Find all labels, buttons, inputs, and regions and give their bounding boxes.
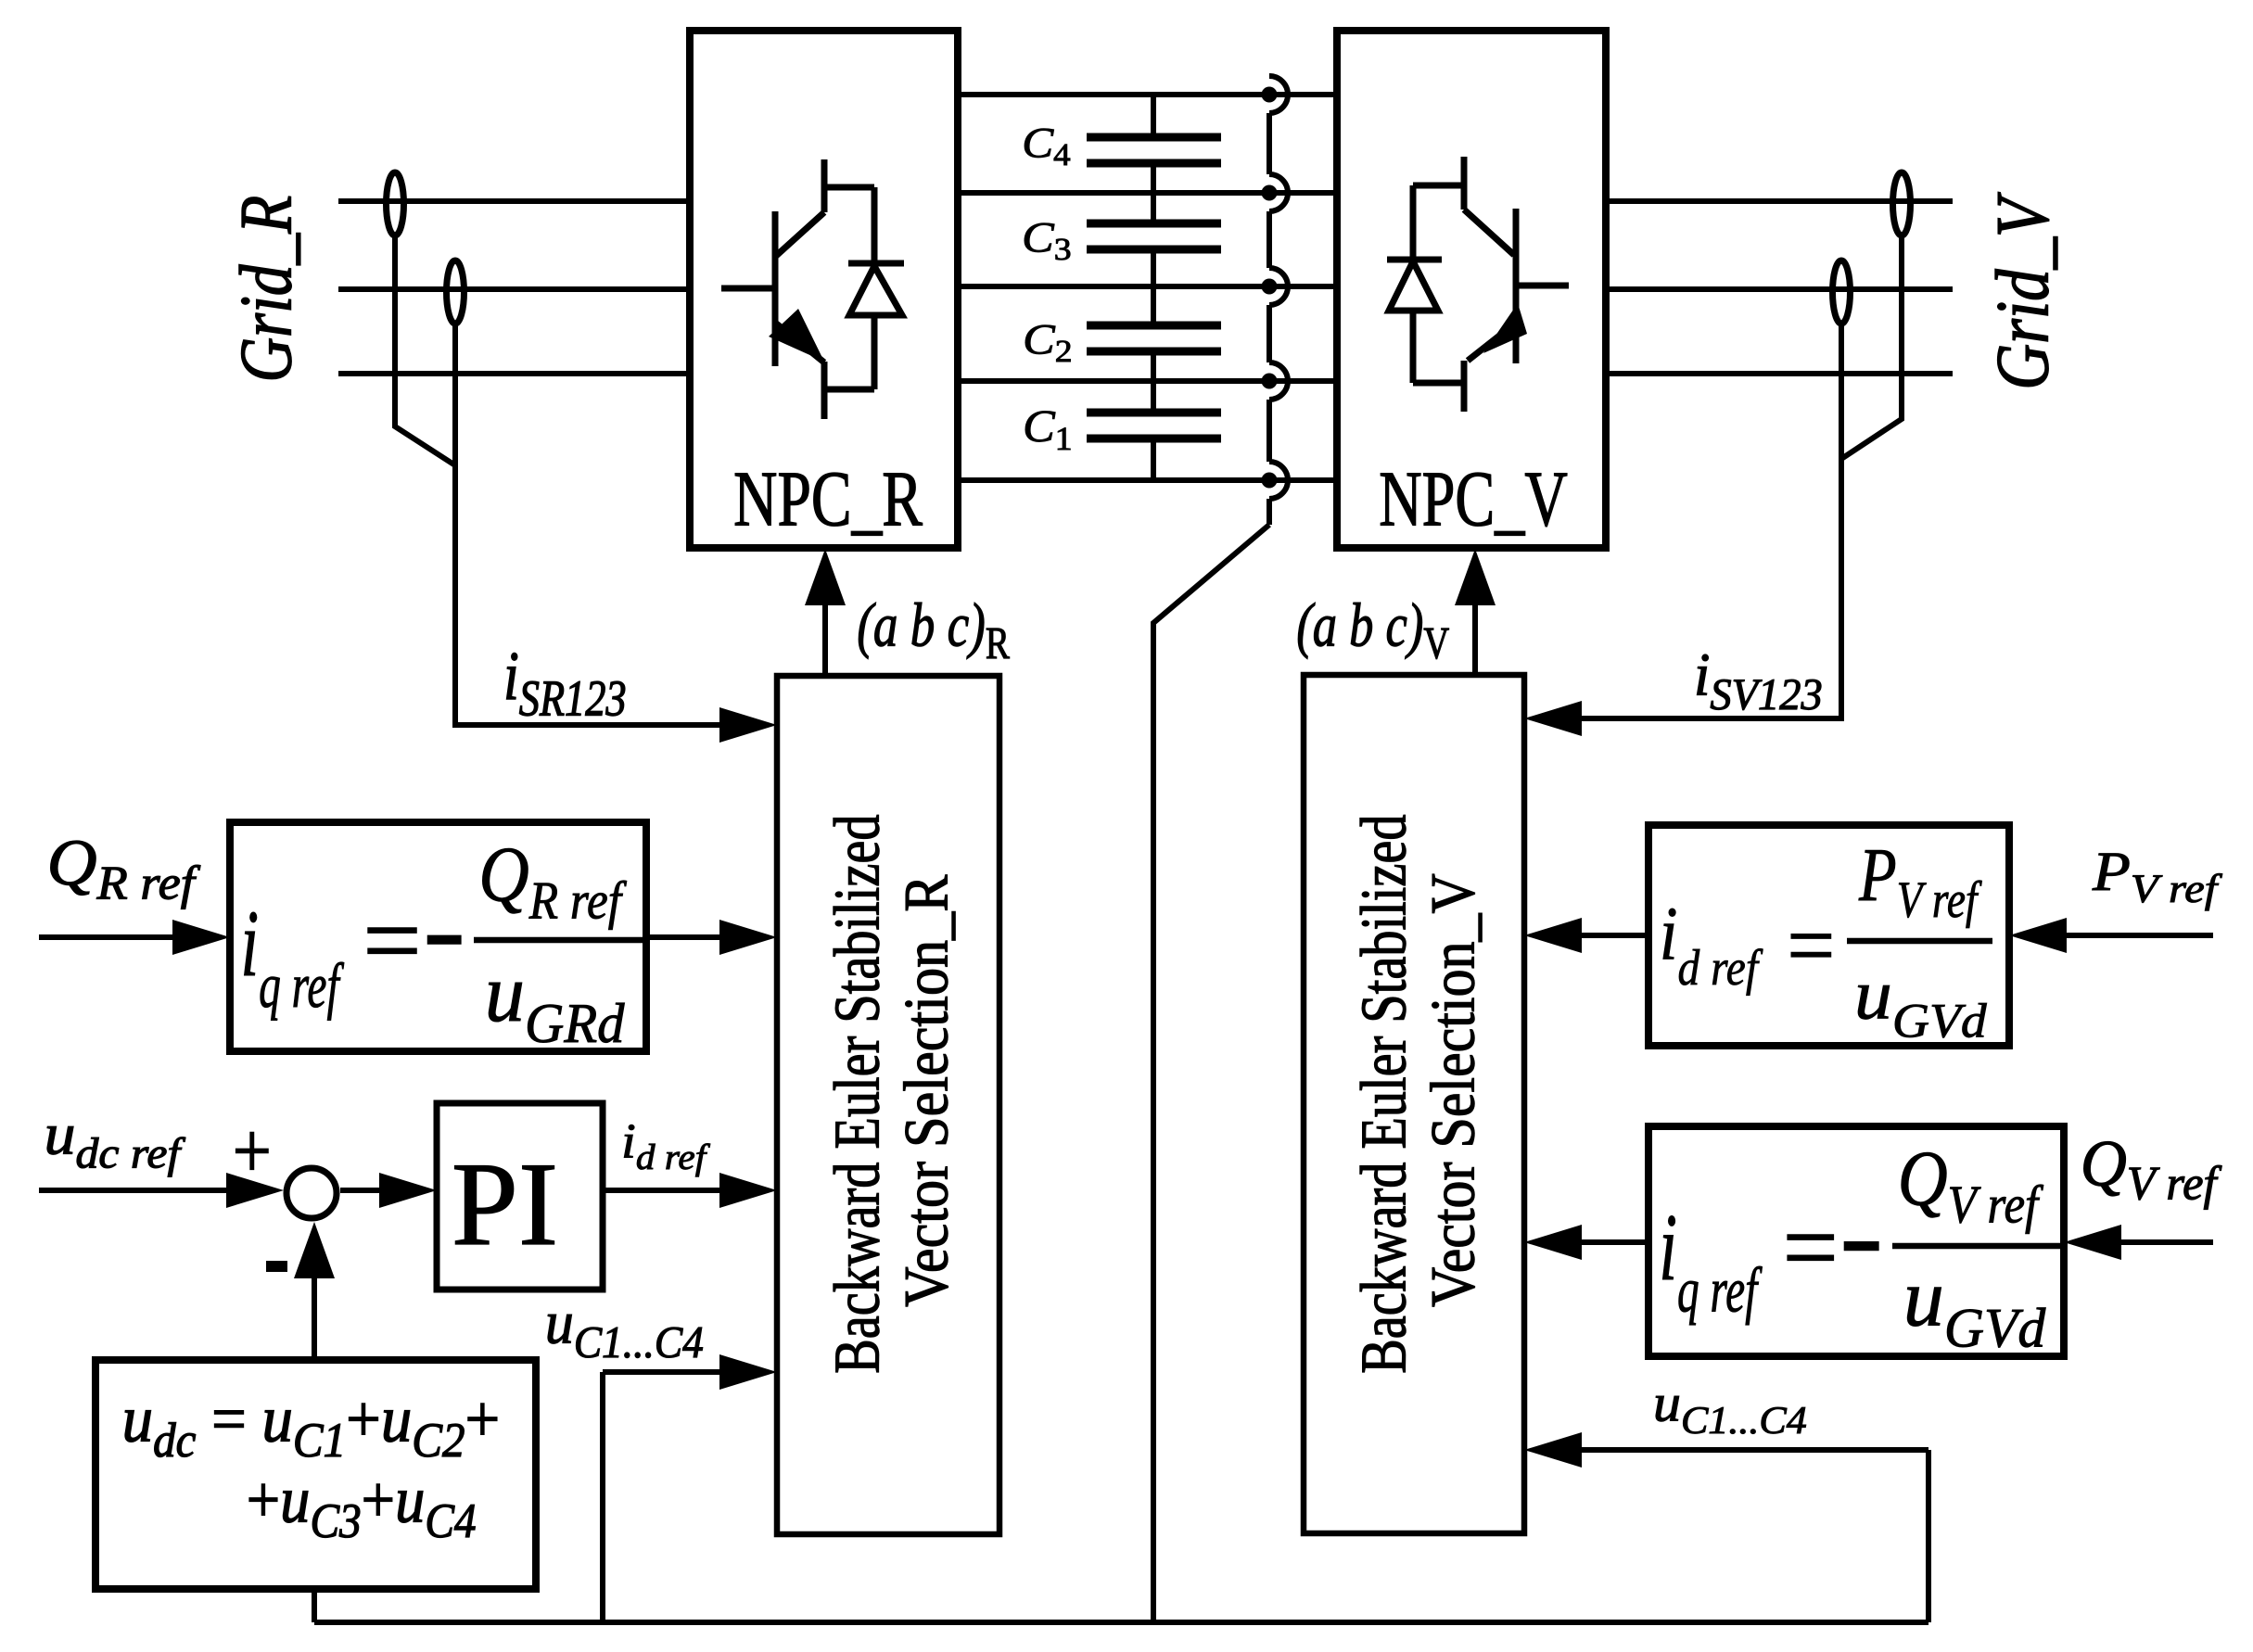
svg-text:Vector Selection_R: Vector Selection_R <box>892 874 961 1307</box>
svg-text:Backward Euler Stabilized: Backward Euler Stabilized <box>1348 815 1419 1374</box>
svg-text:Backward Euler Stabilized: Backward Euler Stabilized <box>821 815 893 1374</box>
svg-text:=: = <box>363 883 421 998</box>
svg-text:PI: PI <box>452 1137 558 1270</box>
svg-text:NPC_V: NPC_V <box>1379 455 1568 543</box>
svg-text:Grid_R: Grid_R <box>225 196 307 383</box>
svg-text:−: − <box>1840 1168 1881 1327</box>
svg-text:=: = <box>1783 1190 1839 1304</box>
svg-text:+: + <box>233 1108 272 1196</box>
svg-text:=: = <box>1787 895 1835 996</box>
svg-text:Grid_V: Grid_V <box>1981 192 2065 390</box>
svg-text:NPC_R: NPC_R <box>733 455 923 543</box>
svg-text:−: − <box>425 862 465 1021</box>
svg-text:Vector Selection_V: Vector Selection_V <box>1419 873 1487 1307</box>
